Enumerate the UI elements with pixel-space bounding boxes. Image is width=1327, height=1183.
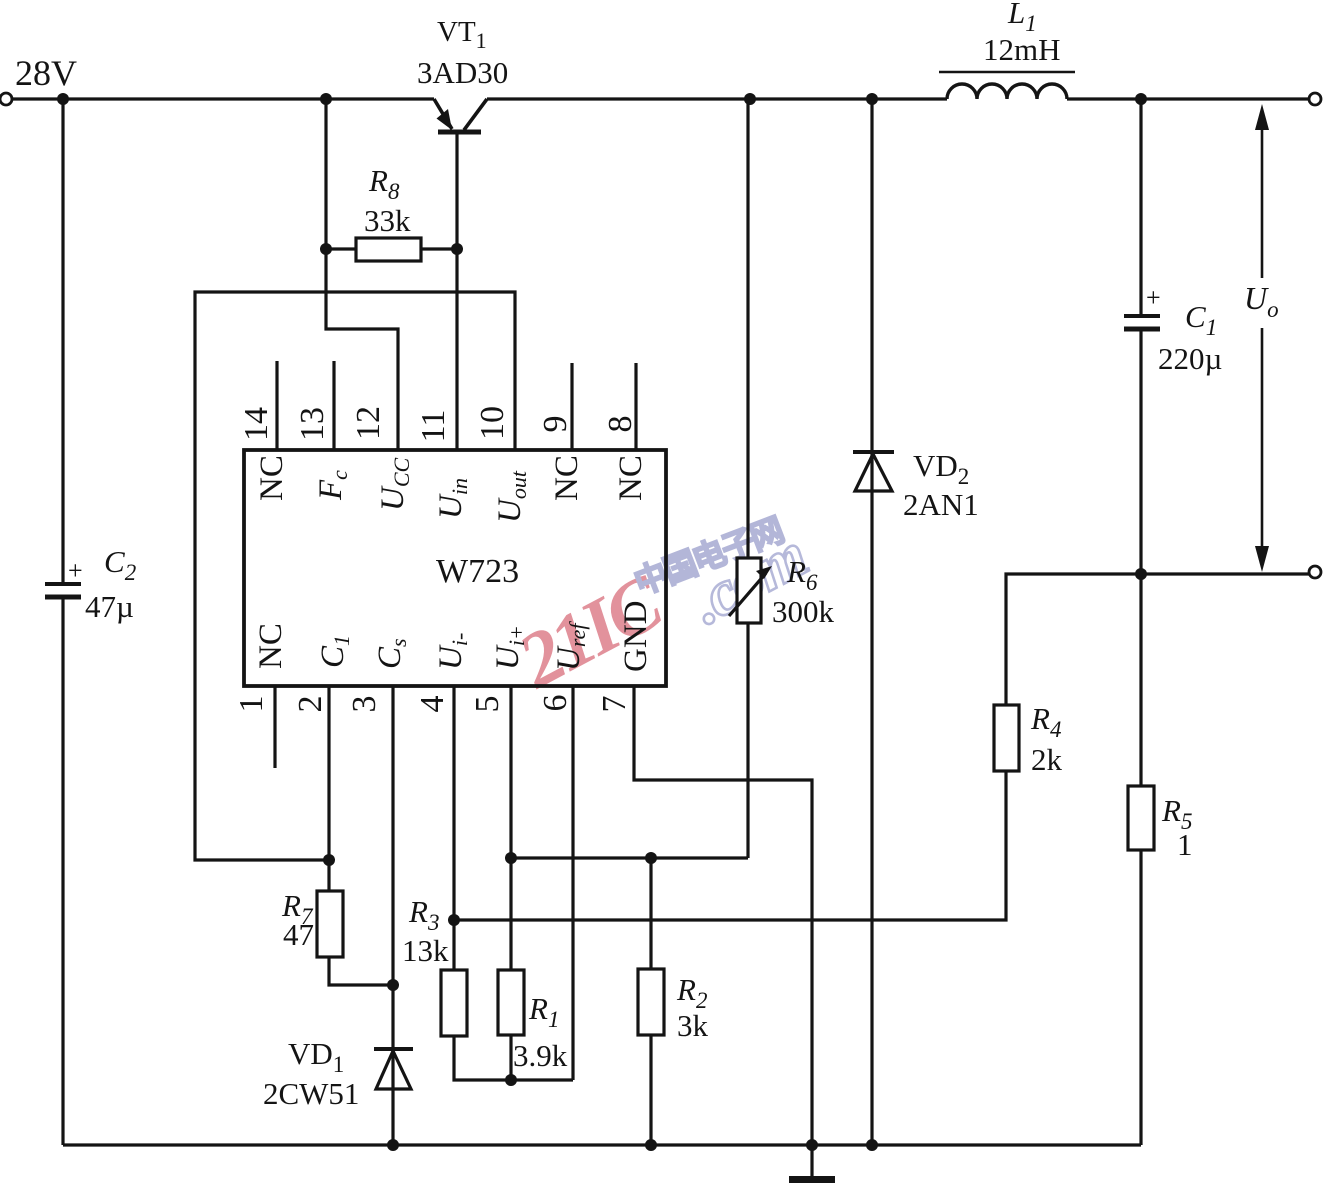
wire R7 bottom to pin3 line	[329, 957, 393, 985]
svg-text:R8: R8	[368, 163, 400, 204]
svg-text:R3: R3	[408, 894, 439, 935]
wire pin3 vertical VD1	[391, 687, 394, 1145]
resistor R5 body	[1128, 786, 1154, 850]
svg-text:R1: R1	[528, 991, 559, 1032]
potentiometer R6 arrowhead	[756, 566, 772, 579]
svg-text:1: 1	[1177, 827, 1193, 862]
svg-text:L1: L1	[1007, 0, 1037, 36]
terminal input 28V	[0, 93, 12, 105]
junction R7 bottom / pin3	[387, 979, 399, 991]
svg-text:3.9k: 3.9k	[513, 1038, 568, 1073]
svg-text:7: 7	[596, 696, 633, 713]
junction R1 bottom	[505, 1074, 517, 1086]
resistor R7 body	[317, 891, 343, 957]
svg-text:2: 2	[292, 696, 329, 713]
svg-text:10: 10	[474, 406, 511, 440]
svg-text:5: 5	[469, 696, 506, 713]
wire left vertical 28V	[61, 99, 64, 1145]
svg-text:VD2: VD2	[913, 448, 969, 489]
wire top rail right of VT1	[487, 97, 947, 100]
svg-text:R2: R2	[676, 972, 707, 1013]
junction C2/input rail	[57, 93, 69, 105]
wire pin4 down	[452, 687, 455, 970]
label L1 underline	[939, 71, 1075, 74]
wire bottom rail	[63, 1143, 1141, 1146]
capacitor C1 plates	[1124, 314, 1160, 318]
svg-text:6: 6	[537, 695, 574, 712]
wire x=326 vertical + pin12 jog	[326, 99, 398, 450]
svg-text:C1: C1	[1185, 299, 1217, 340]
svg-text:14: 14	[238, 407, 275, 441]
svg-text:12: 12	[350, 406, 387, 440]
svg-text:4: 4	[414, 696, 451, 713]
wire top rail right of L1	[1067, 97, 1309, 100]
pin 13 stub	[332, 361, 335, 450]
diode VD1	[374, 1047, 413, 1051]
Uo arrow	[1255, 104, 1269, 572]
IC U1 W723 box	[244, 450, 666, 686]
wire R6 bottom lead	[746, 623, 749, 858]
svg-text:3k: 3k	[677, 1008, 709, 1043]
wire pin5 down	[509, 687, 512, 970]
svg-text:+: +	[1146, 283, 1161, 312]
svg-text:3: 3	[346, 696, 383, 713]
svg-text:C2: C2	[104, 544, 136, 585]
junction pin2 / R7 top	[323, 854, 335, 866]
svg-text:NC: NC	[613, 455, 649, 501]
junction R2 on ground rail	[645, 1139, 657, 1151]
terminal output -	[1309, 566, 1321, 578]
pin 1 stub	[273, 687, 276, 768]
pin numbers bottom	[233, 695, 633, 713]
svg-text:300k: 300k	[772, 594, 835, 629]
junction VD1 on ground rail	[387, 1139, 399, 1151]
resistor R8 body	[356, 238, 421, 261]
svg-text:2CW51: 2CW51	[263, 1076, 359, 1111]
ground	[789, 1176, 835, 1183]
potentiometer arrow R6	[729, 573, 766, 616]
resistor R8 leads	[326, 247, 457, 250]
svg-text:2AN1: 2AN1	[903, 487, 979, 522]
svg-text:R6: R6	[786, 554, 818, 595]
svg-text:NC: NC	[253, 623, 289, 669]
svg-text:3AD30: 3AD30	[417, 55, 508, 90]
svg-text:W723: W723	[436, 553, 519, 590]
watermark chinese 中国电子网	[630, 512, 788, 602]
svg-text:220µ: 220µ	[1158, 341, 1222, 376]
svg-text:9: 9	[537, 416, 574, 433]
wire pin7 GND to ground	[634, 687, 812, 1176]
resistor R4 body	[994, 705, 1019, 771]
pin 14 stub	[275, 361, 278, 450]
wire x=1141 vertical C1 R5	[1139, 99, 1142, 1145]
svg-text:13: 13	[294, 407, 331, 441]
svg-text:1: 1	[233, 696, 270, 713]
svg-text:2k: 2k	[1031, 742, 1063, 777]
svg-text:NC: NC	[254, 455, 290, 501]
junction R8 right / base node	[451, 243, 463, 255]
resistor R6 body	[737, 558, 761, 623]
junction GND lead on ground rail	[806, 1139, 818, 1151]
junction C1 bottom / output rail	[1135, 568, 1147, 580]
wire pin6 down	[571, 687, 574, 1080]
pin labels bottom row	[253, 601, 654, 673]
capacitor C2 plates	[45, 582, 81, 586]
junction pin5 / R1 top	[505, 852, 517, 864]
svg-text:47: 47	[283, 917, 314, 952]
wire R1 bottom	[509, 1035, 512, 1080]
wire R3 bottom to Uref	[454, 1036, 573, 1080]
junction VD2 on ground rail	[866, 1139, 878, 1151]
resistor R3 body	[441, 970, 467, 1036]
svg-text:R4: R4	[1030, 701, 1061, 742]
wire x=748 vertical to R6	[746, 99, 749, 558]
diode VD2	[853, 450, 894, 454]
svg-text:11: 11	[415, 410, 452, 443]
svg-text:28V: 28V	[15, 53, 77, 93]
terminal output +	[1309, 93, 1321, 105]
svg-text:GND: GND	[618, 601, 654, 673]
wire x=872 vertical VD2	[870, 99, 873, 1145]
wire R4 top to output rail	[1006, 574, 1309, 705]
pin numbers top	[238, 406, 639, 442]
wire loop pin10 to pin2	[195, 292, 515, 860]
junction C1 branch on rail	[1135, 93, 1147, 105]
Uo label backing	[1246, 278, 1280, 328]
transistor Q VT1	[434, 99, 452, 129]
resistor R2 body	[638, 969, 664, 1035]
svg-text:VT1: VT1	[437, 16, 487, 53]
svg-text:+: +	[68, 556, 83, 585]
inductor L1	[947, 84, 1067, 99]
pin 8 stub	[634, 363, 637, 450]
transistor VT1 emitter arrow	[437, 109, 453, 130]
svg-text:13k: 13k	[402, 933, 449, 968]
pin 9 stub	[570, 363, 573, 450]
junction R8 branch on rail	[320, 93, 332, 105]
svg-text:VD1: VD1	[288, 1036, 344, 1077]
svg-text:NC: NC	[549, 455, 585, 501]
resistor R1 body	[498, 970, 524, 1035]
wire y=920 horizontal to R4	[454, 771, 1006, 920]
pin labels top row	[254, 455, 649, 523]
svg-text:33k: 33k	[364, 203, 411, 238]
wire R2 bottom	[649, 1035, 652, 1145]
junction R8 left	[320, 243, 332, 255]
wire y=858 horizontal	[511, 856, 748, 859]
junction VD2 branch on rail	[866, 93, 878, 105]
junction R2 top	[645, 852, 657, 864]
watermark 21IC.com	[503, 488, 817, 722]
wire top rail left	[12, 97, 434, 100]
wire pin2 down	[327, 687, 330, 891]
svg-text:12mH: 12mH	[983, 32, 1061, 67]
junction R6 branch on rail	[744, 93, 756, 105]
junction pin4 / R3 top	[448, 914, 460, 926]
svg-text:47µ: 47µ	[85, 589, 134, 624]
wire R2 top lead	[649, 858, 652, 969]
svg-text:8: 8	[602, 416, 639, 433]
